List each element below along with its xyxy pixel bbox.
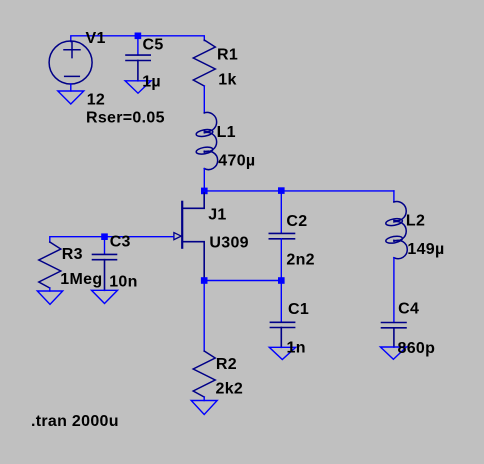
svg-text:L2: L2 — [406, 213, 425, 230]
svg-text:10n: 10n — [109, 274, 137, 291]
svg-text:149µ: 149µ — [407, 241, 444, 258]
svg-text:470µ: 470µ — [218, 153, 255, 170]
capacitor C4 — [382, 323, 407, 348]
inductor L1 — [196, 112, 218, 169]
svg-text:L1: L1 — [217, 124, 236, 141]
wire L2 top lead — [393, 191, 395, 202]
wire junction row horizontal — [204, 190, 394, 192]
wire source to R2 — [203, 281, 205, 352]
ground under C5 — [125, 81, 151, 93]
junction C1 top — [278, 277, 285, 284]
ground under R2 — [191, 401, 217, 415]
wire source row — [204, 280, 281, 282]
resistor R1 — [193, 40, 215, 86]
svg-text:Rser=0.05: Rser=0.05 — [86, 110, 165, 127]
wire top rail V1 to R1 corner — [71, 36, 205, 42]
junction L1 bottom — [201, 188, 208, 195]
svg-text:C2: C2 — [286, 213, 307, 230]
svg-text:C1: C1 — [288, 301, 309, 318]
svg-text:1k: 1k — [218, 72, 236, 89]
capacitor C1 — [270, 322, 294, 347]
wire C1 top lead — [280, 281, 282, 323]
wire R2 to ground — [203, 397, 205, 401]
resistor R2 — [193, 351, 215, 397]
inductor L2 — [385, 202, 407, 259]
ground under C1 — [269, 347, 295, 359]
svg-text:C5: C5 — [143, 37, 164, 54]
svg-text:860p: 860p — [398, 340, 436, 357]
svg-text:C4: C4 — [398, 301, 419, 318]
svg-text:R3: R3 — [62, 246, 83, 263]
capacitor C2 — [269, 233, 294, 238]
svg-text:R1: R1 — [217, 46, 238, 63]
wire gate row — [50, 237, 174, 242]
wire V1 bottom stub — [70, 84, 72, 91]
svg-text:2k2: 2k2 — [216, 381, 244, 398]
svg-text:R2: R2 — [216, 356, 237, 373]
svg-text:.tran 2000u: .tran 2000u — [31, 413, 119, 430]
svg-text:U309: U309 — [209, 235, 248, 252]
ground under C3 — [92, 290, 118, 303]
wire L2 to C4 — [393, 258, 395, 323]
wire C2 bottom lead — [280, 239, 282, 281]
resistor R3 — [39, 242, 61, 288]
junction C5 top — [135, 33, 142, 40]
wire C3 lead — [104, 237, 106, 255]
svg-text:1n: 1n — [287, 340, 306, 357]
svg-text:V1: V1 — [86, 30, 106, 47]
svg-text:12: 12 — [87, 92, 105, 109]
wire R1 to L1 — [203, 86, 205, 113]
ground under C4 — [380, 347, 406, 359]
junction C3 top — [101, 233, 108, 240]
wire L1 to junction row — [203, 169, 205, 191]
wire R3 to ground — [49, 288, 51, 291]
wire C2 top lead — [280, 191, 282, 233]
svg-text:J1: J1 — [208, 207, 226, 224]
junction source — [201, 277, 208, 284]
ground under R3 — [37, 291, 62, 304]
wire C5 lead — [137, 36, 139, 55]
svg-text:C3: C3 — [110, 234, 131, 251]
junction C2 top — [278, 187, 285, 194]
voltage source V1 — [49, 41, 92, 84]
svg-text:1Meg: 1Meg — [60, 271, 102, 288]
capacitor C3 — [93, 254, 117, 290]
capacitor C5 — [126, 55, 150, 81]
svg-text:2n2: 2n2 — [286, 252, 314, 269]
JFET J1 — [174, 193, 204, 278]
ground under V1 — [58, 91, 84, 104]
svg-text:1µ: 1µ — [142, 74, 161, 91]
